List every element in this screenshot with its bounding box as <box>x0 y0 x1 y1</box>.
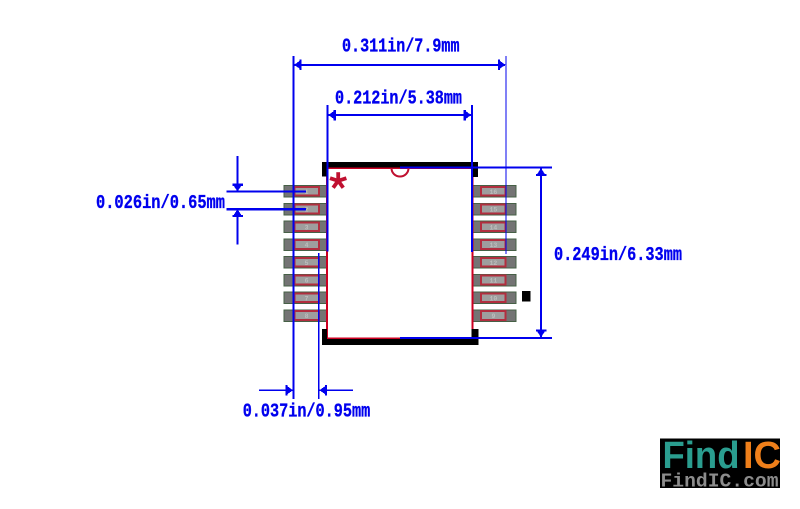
dim 0.249in/6.33mm line <box>540 169 542 337</box>
pin10 marker square <box>522 291 531 302</box>
dim 0.249in/6.33mm extension line top <box>400 167 552 169</box>
dim 0.311in/7.9mm extension line left <box>293 56 295 399</box>
dim 0.212in/5.38mm extension line left <box>326 105 328 252</box>
body corner BR <box>472 329 479 345</box>
pad 4 <box>283 238 328 251</box>
pad 9 <box>472 309 517 322</box>
dim 0.026in/0.65mm arrow line top <box>237 156 239 191</box>
dim 0.212in/5.38mm line <box>328 114 471 116</box>
svg-text:8: 8 <box>305 313 309 320</box>
pad 6 <box>283 274 328 287</box>
pad 13 <box>472 238 517 251</box>
dim 0.249in/6.33mm extension line bottom <box>400 337 552 339</box>
pad 15 <box>472 203 517 216</box>
svg-text:6: 6 <box>305 278 309 285</box>
svg-text:0.212in/5.38mm: 0.212in/5.38mm <box>335 87 462 109</box>
pad 5 <box>283 256 328 269</box>
dim 0.311in/7.9mm line <box>295 64 506 66</box>
dim 0.026in/0.65mm pointer line 1 <box>227 191 307 193</box>
pin1 notch <box>392 168 409 176</box>
dim 0.026in/0.65mm arrow line bottom <box>237 210 239 245</box>
svg-text:FindIC.com: FindIC.com <box>661 471 779 493</box>
body outline U1 <box>327 168 472 338</box>
svg-text:3: 3 <box>305 224 309 231</box>
dim 0.037in/0.95mm arrow line right <box>320 389 354 391</box>
svg-text:14: 14 <box>489 224 497 231</box>
pad 8 <box>283 309 328 322</box>
svg-text:10: 10 <box>489 295 497 302</box>
dim 0.037in/0.95mm extension line right <box>318 253 320 399</box>
body corner TR <box>472 162 478 177</box>
svg-text:16: 16 <box>489 189 497 196</box>
svg-text:0.037in/0.95mm: 0.037in/0.95mm <box>243 401 371 423</box>
dim 0.311in/7.9mm extension line right <box>506 56 507 254</box>
svg-text:7: 7 <box>305 295 309 302</box>
pad 14 <box>472 221 517 234</box>
body corner BL <box>322 329 327 345</box>
dim 0.026in/0.65mm pointer line 2 <box>227 208 307 210</box>
pad 7 <box>283 292 328 305</box>
pad 2 <box>283 203 328 216</box>
svg-text:11: 11 <box>489 278 497 285</box>
body top black bar <box>322 162 478 167</box>
FindIC logo box <box>660 438 780 488</box>
body bottom black bar <box>322 339 478 345</box>
pad 16 <box>472 185 517 198</box>
pad 1 <box>283 185 328 198</box>
svg-text:9: 9 <box>491 313 495 320</box>
pad 3 <box>283 221 328 234</box>
svg-text:5: 5 <box>305 260 309 267</box>
svg-text:0.311in/7.9mm: 0.311in/7.9mm <box>342 36 460 58</box>
svg-text:12: 12 <box>489 260 497 267</box>
dim 0.212in/5.38mm extension line right <box>471 105 473 252</box>
pad 10 <box>472 292 517 305</box>
svg-text:4: 4 <box>305 242 309 249</box>
dim 0.037in/0.95mm arrow line left <box>259 389 293 391</box>
svg-text:0.249in/6.33mm: 0.249in/6.33mm <box>554 244 682 266</box>
svg-text:15: 15 <box>489 207 497 214</box>
pad 12 <box>472 256 517 269</box>
svg-text:0.026in/0.65mm: 0.026in/0.65mm <box>96 192 225 214</box>
pin1 asterisk <box>330 172 346 188</box>
body corner TL <box>322 162 328 176</box>
pad 11 <box>472 274 517 287</box>
svg-text:13: 13 <box>489 242 497 249</box>
